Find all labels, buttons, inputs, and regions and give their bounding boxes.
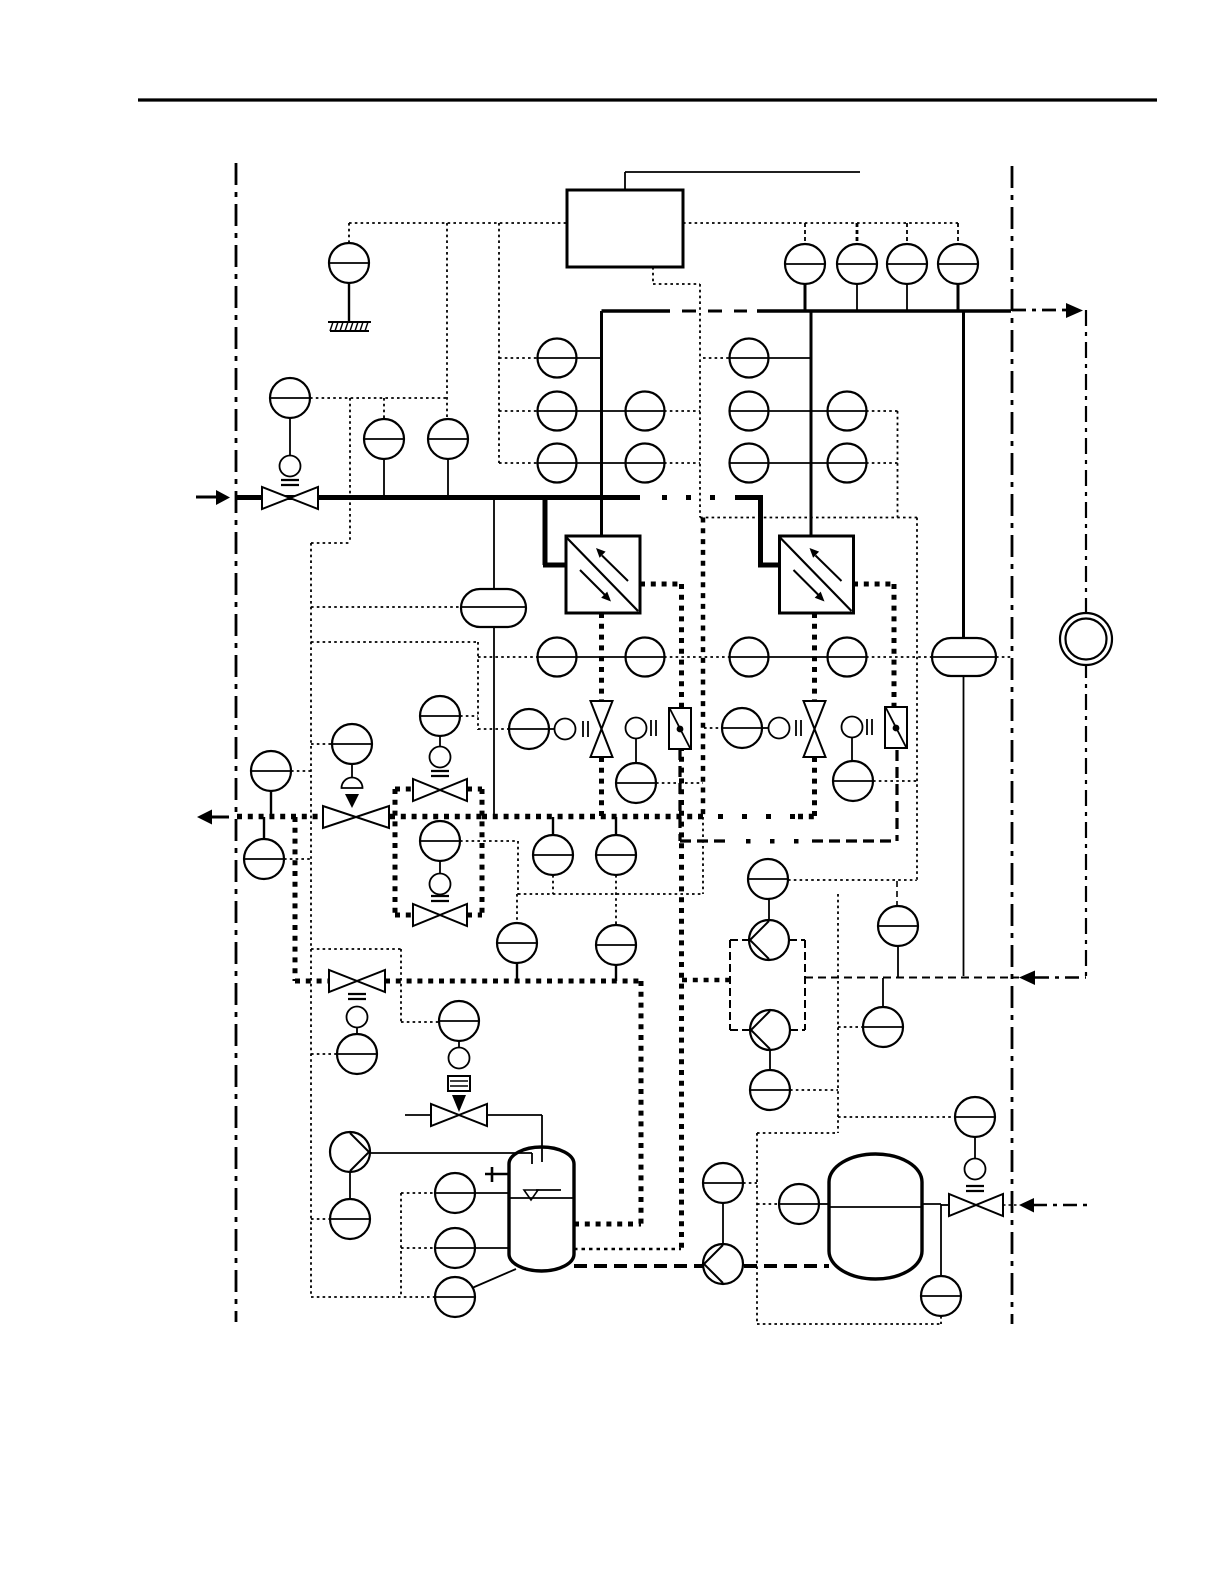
- feed line break dots: [662, 495, 715, 500]
- instrument below R1: [616, 738, 656, 803]
- wire from controller top: [625, 172, 860, 190]
- instrument at V1: [509, 709, 549, 749]
- V2 left positioner: [762, 718, 801, 739]
- feed pipe to exchanger E2: [735, 495, 780, 565]
- instrument row3 T1: [537, 444, 665, 483]
- row3 T1 signal: [664, 462, 700, 464]
- inline element S1: [461, 589, 526, 627]
- battery-limit line left: [235, 163, 238, 1322]
- instrument 553: [533, 817, 573, 875]
- MCV actuator: [965, 1137, 986, 1180]
- instrument above outlet: [251, 751, 291, 816]
- plus mark: [485, 1167, 510, 1182]
- recirc line: [574, 1264, 829, 1268]
- signal stub T2: [757, 1203, 779, 1205]
- signal to LCV instrument: [311, 743, 332, 745]
- makeup valve MCV: [949, 1194, 1003, 1216]
- signal y1324: [757, 1323, 941, 1325]
- bypass bottom flange: [431, 896, 449, 901]
- signal x917: [916, 518, 918, 882]
- signal box x401: [311, 949, 438, 1022]
- signal stub P4: [743, 1182, 757, 1184]
- signal y881 corner: [915, 880, 917, 881]
- instrument row1 T2: [729, 339, 811, 378]
- OCV outlet line: [487, 1114, 542, 1116]
- signal drop to LI: [348, 223, 350, 243]
- signal x757: [756, 1133, 758, 1324]
- level control valve LCV: [323, 806, 389, 828]
- tank T1 level mark: [524, 1190, 561, 1200]
- instrument row1 T1: [537, 339, 601, 378]
- instrument over OCV: [439, 1001, 479, 1041]
- instrument over P4: [703, 1163, 743, 1243]
- OCV dip pipe: [541, 1115, 543, 1162]
- signal drop PG2: [856, 223, 859, 244]
- product riser E1: [600, 311, 603, 537]
- row4 T1 signal right: [664, 656, 729, 658]
- tank T1: [509, 1147, 574, 1271]
- drain valve actuator: [347, 1007, 368, 1035]
- inlet valve flange bars: [281, 480, 299, 485]
- signal drop PG3: [906, 223, 908, 244]
- tank T2: [829, 1154, 922, 1279]
- interlock dashed line: [680, 839, 897, 844]
- pump interlock stub: [682, 978, 729, 983]
- signal line bottom: [311, 1296, 435, 1298]
- feed inlet arrow: [196, 490, 230, 505]
- signal x838: [757, 894, 838, 1133]
- row2 T2 signal: [866, 410, 898, 412]
- bottoms line break dots: [718, 814, 723, 819]
- signal stub tank-a: [401, 1192, 435, 1194]
- drain line: [295, 817, 641, 1224]
- top rule: [138, 98, 1157, 101]
- tank T1 level line: [509, 1197, 574, 1199]
- bypass bottom actuator: [430, 861, 451, 895]
- row1 T2 signal: [703, 357, 729, 359]
- instrument below P1: [330, 1172, 370, 1239]
- OCV actuator: [449, 1042, 470, 1069]
- MCV line left: [941, 1204, 948, 1206]
- transfer pump P2: [749, 920, 789, 960]
- bypass valve bottom: [413, 904, 467, 926]
- instrument below drain valve: [337, 1034, 377, 1074]
- signal bus y894: [518, 893, 702, 895]
- signal stub tank-b: [401, 1247, 435, 1249]
- instrument over bypass top: [420, 696, 460, 736]
- signal bypass bottom: [460, 841, 518, 894]
- signal y1248: [574, 1248, 681, 1250]
- line below S1: [493, 627, 495, 817]
- drain valve: [329, 970, 385, 992]
- isolation valve V2: [804, 701, 826, 757]
- instrument below T2 outlet: [921, 1276, 961, 1316]
- signal stub 357: [311, 1053, 336, 1055]
- ground symbol: [328, 322, 371, 331]
- signal trunk x311: [310, 543, 312, 1297]
- pressure gauge PG-b: [428, 419, 468, 459]
- signal stub 883: [838, 1026, 863, 1028]
- instrument LI top-left: [329, 243, 369, 283]
- bypass frame: [395, 789, 482, 915]
- signal y880: [788, 879, 916, 881]
- isolation valve V1: [591, 701, 613, 757]
- stem to ground: [348, 283, 350, 322]
- signal drop to PG-a: [383, 398, 385, 419]
- instrument below P3: [750, 1050, 790, 1110]
- gauge PG3: [887, 244, 927, 311]
- OCV solenoid: [448, 1076, 470, 1091]
- signal bus y517: [700, 517, 917, 519]
- signal bypass top: [460, 715, 478, 717]
- gauge PG4: [938, 244, 978, 311]
- instrument row3 T2: [729, 444, 867, 483]
- tank instrument b: [435, 1228, 509, 1268]
- drain valve flange: [348, 994, 366, 999]
- instrument over bypass bottom: [420, 821, 460, 861]
- OCV inlet line: [405, 1114, 431, 1116]
- V2 right positioner: [842, 717, 873, 738]
- gauge PG2: [837, 244, 877, 311]
- signal 616 drop: [615, 875, 617, 925]
- instrument 616: [596, 817, 636, 875]
- cold line below V2: [812, 757, 817, 816]
- signal drop PG1: [804, 223, 806, 244]
- signal line to left instruments: [349, 222, 567, 224]
- row4 T2 signal right: [996, 656, 1012, 658]
- row4 T1 signal left: [478, 656, 537, 658]
- pump box dashed: [730, 940, 805, 1030]
- product outlet arrow: [1012, 303, 1083, 318]
- tank feed pump P1: [330, 1132, 370, 1172]
- feed pipe to exchanger E1: [543, 498, 567, 566]
- instrument 883: [863, 978, 903, 1047]
- instrument row2 T1: [537, 392, 665, 431]
- pressure gauge PG-a: [364, 419, 404, 459]
- cold line below E2: [812, 613, 817, 701]
- LCV arrow stem: [345, 794, 359, 808]
- tank instrument c: [435, 1269, 516, 1317]
- instrument at V2: [722, 708, 762, 748]
- bypass top flange: [431, 771, 449, 776]
- recycle line right: [1085, 310, 1087, 976]
- riser to inline element S1: [493, 497, 495, 589]
- instrument left of T2: [779, 1184, 829, 1224]
- signal stub 264: [284, 858, 311, 860]
- signal drop PG4: [957, 223, 959, 244]
- bottoms line left: [237, 814, 482, 820]
- inlet valve actuator: [280, 418, 301, 477]
- instrument below R2: [833, 737, 873, 801]
- branch line right of E1: [640, 584, 682, 1248]
- bypass valve top: [413, 779, 467, 801]
- signal 553 drop: [552, 875, 554, 894]
- row3 T2 signal: [866, 462, 898, 464]
- instrument over MCV: [955, 1097, 995, 1137]
- outlet control valve OCV: [431, 1104, 487, 1126]
- bypass top actuator: [430, 736, 451, 768]
- signal from instrument 853: [873, 780, 917, 782]
- gauge PG-a stem: [383, 459, 385, 495]
- signal to V1 instrument: [478, 728, 509, 730]
- heat exchanger E2: [780, 536, 854, 613]
- instrument below outlet: [244, 817, 284, 879]
- signal line from instrument: [310, 397, 447, 399]
- product riser E2: [810, 311, 813, 537]
- MCV flange: [966, 1186, 984, 1191]
- signal trunk x350: [311, 398, 350, 543]
- instrument over LCV: [332, 724, 372, 764]
- signal stub P1: [311, 1218, 330, 1220]
- signal to V2 instrument: [704, 727, 722, 729]
- signal under 941: [940, 1316, 942, 1324]
- instrument over P2: [748, 859, 788, 920]
- return stream dashdot: [1035, 976, 1086, 979]
- instrument 898: [878, 881, 918, 977]
- signal trunk x703: [701, 518, 706, 895]
- tank instrument a: [435, 1173, 509, 1213]
- feed header pipe: [236, 495, 640, 500]
- instrument 517: [497, 923, 537, 981]
- signal from controller bottom: [653, 267, 700, 518]
- outlet arrow left: [197, 810, 229, 825]
- tank T2 outlet: [922, 1204, 941, 1276]
- OCV arrow stem: [452, 1095, 466, 1112]
- signal trunk x478: [311, 642, 478, 730]
- signal to S1: [311, 606, 461, 608]
- return stream arrow: [1019, 971, 1035, 986]
- signal from instrument 636: [656, 782, 703, 784]
- gauge PG-b stem: [447, 459, 449, 495]
- tank T1 inlet nozzle: [370, 1153, 532, 1164]
- riser to inline element S2: [962, 311, 965, 638]
- inlet control valve: [262, 487, 318, 509]
- product header break: [682, 310, 747, 313]
- tank T2 level line: [829, 1206, 922, 1208]
- row4 T2 signal left: [866, 656, 932, 658]
- signal x401 lower: [400, 1193, 402, 1297]
- signal stub 271: [291, 770, 311, 772]
- interlock R2 drop: [895, 750, 898, 841]
- signal line to gauges: [683, 222, 958, 224]
- relay box R1: [669, 708, 691, 749]
- MCV line right: [1003, 1204, 1017, 1206]
- signal line x447: [446, 223, 448, 419]
- V1 left positioner: [549, 719, 588, 740]
- signal x897 T2: [897, 411, 899, 518]
- cold line below E1: [599, 613, 604, 701]
- interlock R1 drop: [678, 749, 681, 841]
- makeup arrow: [1019, 1198, 1089, 1213]
- product header pipe: [602, 309, 1012, 312]
- signal 517 up: [516, 894, 518, 923]
- signal trunk x499: [499, 223, 537, 463]
- branch line right of E2: [853, 584, 894, 707]
- LCV diaphragm: [342, 764, 363, 788]
- cold line below V1: [599, 757, 604, 817]
- signal stub P3: [790, 1089, 838, 1091]
- instrument row4 T2: [729, 638, 867, 677]
- instrument row4 T1: [537, 638, 665, 677]
- instrument row2 T2: [729, 392, 867, 431]
- heat exchanger E1: [566, 536, 640, 613]
- V1 right positioner: [626, 718, 657, 739]
- return stream dashed: [805, 977, 1019, 979]
- transfer pump P3: [750, 1010, 790, 1050]
- instrument over inlet valve: [270, 378, 310, 418]
- gauge PG1: [785, 244, 825, 311]
- controller box: [567, 190, 683, 267]
- flow element FE (double circle): [1060, 613, 1112, 665]
- battery-limit line right: [1011, 166, 1014, 1324]
- bottoms line to V2: [798, 814, 814, 820]
- signal y1117: [838, 1116, 955, 1118]
- bottoms line mid: [482, 814, 705, 820]
- row2 T1 signal: [664, 410, 700, 412]
- line below S2: [963, 676, 965, 976]
- instrument 616 lower: [596, 925, 636, 981]
- relay box R2: [885, 707, 907, 748]
- recirc pump P4: [703, 1244, 743, 1284]
- inline element S2: [932, 638, 996, 676]
